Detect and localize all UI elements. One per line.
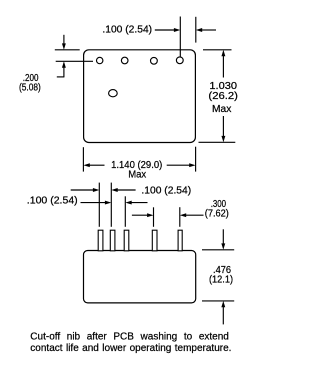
extension line at body top edge (left) — [55, 49, 80, 51]
svg-text:.100 (2.54): .100 (2.54) — [141, 186, 191, 197]
top view package body — [84, 50, 196, 143]
svg-text:Max: Max — [128, 170, 146, 181]
dimension arrow down (1.030) — [221, 116, 225, 142]
extension line from body left edge (down) — [82, 147, 84, 171]
dimension arrow left (pins 1-2 .100) — [71, 188, 100, 192]
extension line at body top edge (right) — [203, 49, 232, 51]
extension line at side body top edge — [202, 249, 234, 251]
extension line from pin 5 — [179, 207, 181, 227]
dimension arrow right (pins 1-2 .100) — [111, 188, 135, 192]
extension line at hole row — [56, 60, 93, 62]
svg-text:.100 (2.54): .100 (2.54) — [27, 196, 78, 207]
svg-text:(12.1): (12.1) — [209, 275, 233, 286]
pin 2 (side view) — [110, 230, 115, 251]
extension line from pin 2 — [110, 183, 112, 227]
pin 5 (side view) — [178, 230, 182, 251]
dimension arrow right (pins 4-5 .300) — [180, 213, 204, 217]
pin hole 1 (top view) — [97, 57, 103, 63]
leader line (.200) — [57, 76, 65, 78]
dimension arrow right (pins 2-3 .100) — [125, 201, 147, 205]
dimension arrow up (.476 bottom) — [221, 301, 225, 325]
extension line from pin 4 — [153, 207, 155, 227]
svg-text:(5.08): (5.08) — [19, 82, 41, 93]
svg-text:.100 (2.54): .100 (2.54) — [102, 25, 152, 36]
extension line at body bottom edge (right) — [199, 141, 236, 143]
pin hole 4 (top view) — [176, 57, 183, 64]
extension line from pin 1 — [98, 183, 100, 227]
dimension arrow left (pins 2-3 .100) — [81, 201, 112, 205]
svg-text:contact life and lower operati: contact life and lower operating tempera… — [30, 343, 231, 354]
dimension arrow right (1.140) — [167, 163, 196, 167]
dimension arrow right (top .100) — [196, 28, 216, 32]
pin 3 (side view) — [124, 230, 129, 251]
cut-off nib hole (top view) — [109, 90, 118, 97]
extension line from hole 4 — [179, 17, 181, 57]
extension line from body right edge (top) — [195, 17, 197, 43]
extension line from pin 3 — [124, 196, 126, 227]
svg-text:(7.62): (7.62) — [205, 208, 229, 219]
pin hole 2 (top view) — [121, 57, 128, 64]
dimension arrow down (.200) — [62, 35, 66, 50]
dimension arrow left (top .100) — [155, 28, 181, 32]
svg-text:Max: Max — [212, 104, 231, 115]
svg-text:Cut-off nib after PCB washing: Cut-off nib after PCB washing to extend — [30, 331, 229, 342]
extension line from body right edge (down) — [195, 147, 197, 172]
dimension arrow down (.476 top) — [221, 229, 225, 250]
dimension arrow left (1.140) — [83, 163, 104, 167]
pin hole 3 (top view) — [151, 57, 158, 64]
dimension arrow left (pins 4-5 .300) — [132, 213, 154, 217]
pin 4 (side view) — [152, 230, 157, 251]
extension line at side body bottom edge — [202, 300, 234, 302]
dimension arrow up (.200) — [62, 61, 66, 77]
side view package body — [84, 251, 196, 303]
pin 1 (side view) — [98, 230, 103, 251]
dimension arrow up (1.030) — [221, 50, 225, 78]
svg-text:(26.2): (26.2) — [208, 91, 238, 102]
